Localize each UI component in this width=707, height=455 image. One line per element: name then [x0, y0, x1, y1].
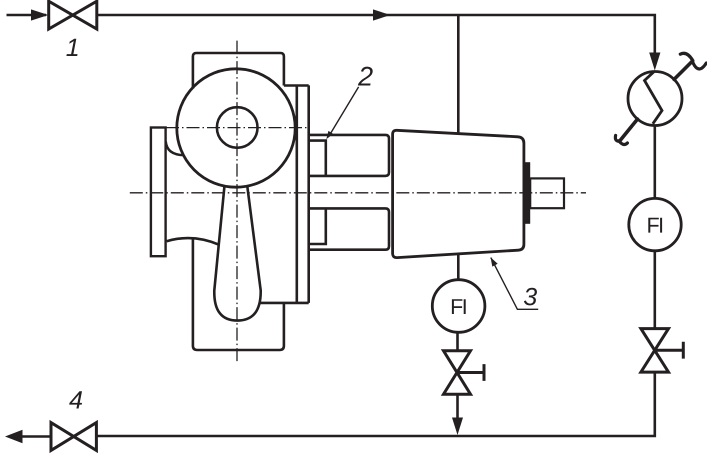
label 1 — [66, 39, 77, 56]
shaft hub circle — [217, 107, 258, 148]
valve 1 — [49, 1, 97, 29]
flange-to-casing fillet arc — [166, 142, 184, 156]
wire: bearing housing to FI (bottom) — [457, 254, 460, 280]
seal housing lower — [309, 208, 389, 249]
bearing housing (label 3 target) — [393, 130, 524, 257]
drain valve handle — [457, 364, 484, 381]
wire: top header — [97, 15, 655, 54]
leader arrowhead 2 — [326, 131, 333, 139]
label 2 — [358, 67, 373, 86]
flow indicator FI (bottom) — [432, 280, 485, 333]
cooling water outlet (upper-right squiggle arrow) — [674, 53, 706, 79]
wire: FI to drain valve — [456, 332, 459, 351]
bearing housing end cap (black bar) — [525, 162, 531, 224]
wire: inlet line top-left — [7, 14, 47, 17]
wire: valve to bottom corner and bottom return line — [96, 372, 654, 436]
leader arrowhead 3 — [491, 257, 498, 266]
pump casing circle — [177, 69, 295, 187]
arrow: flow into valve 1 — [31, 9, 48, 20]
volute drain boss (teardrop) — [214, 186, 260, 320]
suction flange — [151, 128, 166, 257]
flow indicator FI (right) — [629, 198, 681, 250]
seal gland lower — [309, 208, 326, 244]
leader line for label 2 — [328, 87, 358, 137]
pump shaft axis centerline — [130, 192, 586, 194]
cooling water inlet (lower-left squiggle arrow) — [615, 119, 637, 144]
casing bottom curve — [167, 238, 220, 245]
wire: branch down to bearing housing — [457, 15, 460, 134]
wire: outlet left — [22, 435, 51, 438]
arrow: into cooler — [649, 53, 660, 71]
valve 4 — [51, 423, 96, 451]
valve handle (right branch) — [655, 342, 684, 359]
seal housing upper — [309, 135, 389, 176]
drain valve — [444, 351, 471, 394]
seal gland upper (label 2 target) — [309, 141, 326, 176]
pump volute horizontal centerline — [166, 127, 310, 129]
label 3 — [524, 288, 537, 306]
label 4 — [69, 391, 82, 408]
arrow: outlet flow left — [5, 430, 23, 443]
wire: cooler to FI — [653, 126, 656, 199]
cooler / heat exchanger — [628, 72, 682, 126]
wire: FI to valve (right) — [653, 251, 656, 329]
valve (right branch) — [641, 329, 669, 373]
casing back plate — [260, 85, 309, 303]
pump vertical centerline — [236, 41, 238, 363]
pump discharge casing (upper rectangle) — [193, 53, 284, 89]
shaft stub — [530, 178, 564, 208]
arrow: flow along top header — [373, 9, 391, 20]
leader line for label 3 — [491, 258, 538, 310]
wire: drain valve to bottom line — [456, 394, 459, 420]
pump foot (lower rectangle) — [193, 237, 284, 350]
arrow: drain down to bottom line — [452, 418, 463, 436]
